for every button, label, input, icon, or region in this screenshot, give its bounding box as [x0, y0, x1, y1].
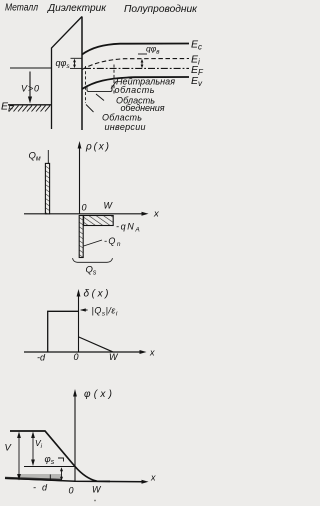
- svg-text:область: область: [115, 85, 155, 95]
- svg-text:δ(x): δ(x): [84, 289, 109, 300]
- svg-text:Qs: Qs: [86, 265, 97, 277]
- svg-text:x: x: [150, 473, 156, 483]
- svg-text:Qм: Qм: [29, 151, 41, 163]
- svg-text:x: x: [149, 348, 155, 358]
- svg-text:инверсии: инверсии: [105, 122, 146, 132]
- svg-text:Металл: Металл: [5, 3, 38, 14]
- svg-text:W: W: [92, 485, 102, 495]
- svg-text:ρ(x): ρ(x): [85, 142, 109, 153]
- svg-text:x: x: [153, 209, 160, 220]
- svg-text:|Qs|/εi: |Qs|/εi: [92, 306, 118, 318]
- svg-text:qφs: qφs: [56, 58, 71, 70]
- svg-text:-Qn: -Qn: [104, 236, 121, 248]
- svg-text:EF: EF: [1, 101, 14, 114]
- svg-text:qφв: qφв: [146, 44, 160, 56]
- svg-text:W: W: [104, 201, 114, 211]
- svg-text:φ(x): φ(x): [84, 389, 112, 400]
- svg-text:V>0: V>0: [21, 84, 39, 94]
- svg-text:-d: -d: [37, 353, 46, 363]
- svg-text:0: 0: [74, 352, 79, 362]
- svg-text:0: 0: [69, 486, 74, 496]
- svg-text:V: V: [5, 443, 13, 454]
- svg-text:Полупроводник: Полупроводник: [124, 4, 198, 15]
- svg-text:φs: φs: [45, 454, 55, 466]
- svg-text:0: 0: [82, 203, 87, 213]
- svg-text:-qNA: -qNA: [116, 222, 140, 234]
- svg-text:Ec: Ec: [191, 39, 202, 52]
- svg-text:-d: -d: [33, 483, 48, 493]
- svg-text:обеднения: обеднения: [121, 103, 165, 113]
- svg-text:Диэлектрик: Диэлектрик: [47, 3, 107, 14]
- svg-text:Vi: Vi: [35, 438, 43, 450]
- svg-text:W: W: [109, 352, 119, 362]
